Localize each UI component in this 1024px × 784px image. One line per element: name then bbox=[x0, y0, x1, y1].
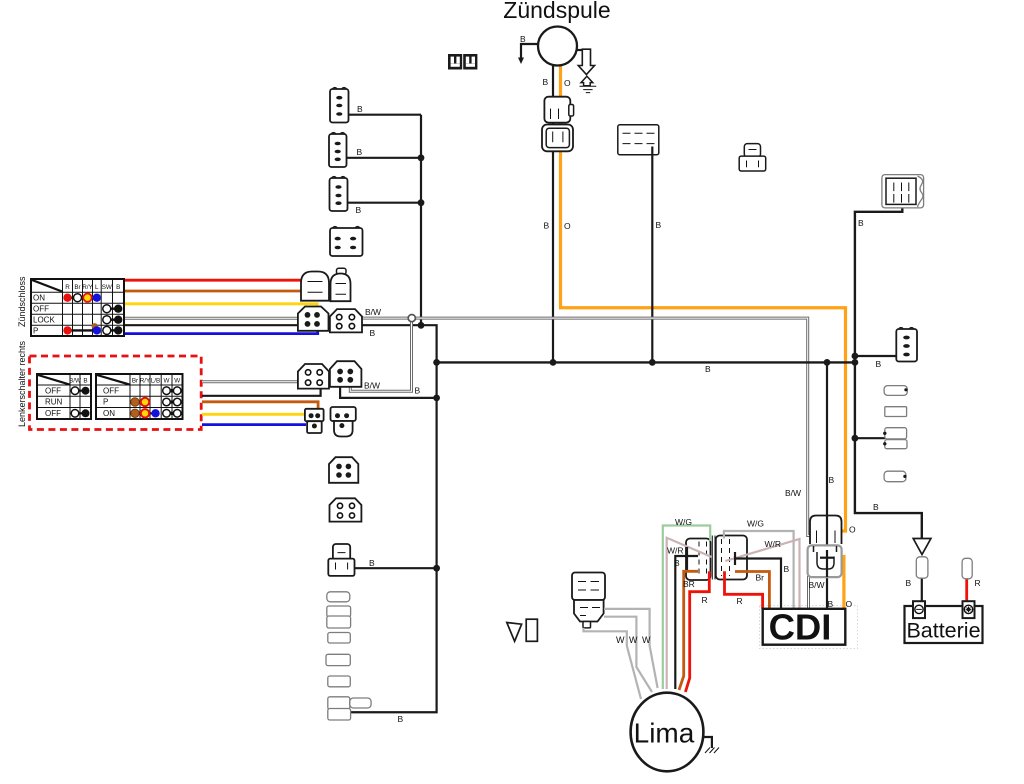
wire B from Lenkerschalter bbox=[202, 389, 321, 396]
svg-text:CDI: CDI bbox=[769, 607, 832, 648]
3-pin connector pair lower-left: left half bbox=[305, 409, 324, 433]
dashed 6-slot connector bbox=[618, 125, 659, 155]
small connector right of dashed one bbox=[739, 144, 766, 171]
fuse R (battery plus lead) bbox=[965, 579, 968, 602]
wire W/R pink from Lima, diagonal into connector bbox=[667, 538, 712, 689]
Lenkerschalter left table bbox=[37, 374, 91, 419]
bullet connector 6 bbox=[328, 676, 351, 687]
ignition coil circle bbox=[538, 27, 577, 66]
junction right bus / fuse block wire bbox=[852, 435, 859, 442]
svg-text:B: B bbox=[674, 558, 680, 568]
wire B from right half to CDI bbox=[735, 559, 781, 609]
svg-text:W: W bbox=[629, 635, 638, 645]
horizontal B bus bbox=[437, 361, 855, 363]
wire R from left half down to Lima bbox=[685, 571, 709, 692]
key connector pair (2-pin) left half bbox=[301, 272, 329, 301]
bullet connector 1 bbox=[327, 592, 350, 602]
svg-text:B: B bbox=[876, 359, 882, 369]
coil connector 1 bbox=[544, 97, 570, 123]
wire L/B(blue) from Lenkerschalter bbox=[202, 423, 306, 426]
wire B/W pair B right up to splice bbox=[350, 318, 411, 391]
svg-text:Lenkerschalter rechts: Lenkerschalter rechts bbox=[17, 340, 27, 427]
junction spine / pair B B wire bbox=[433, 395, 440, 402]
wire W 3 bbox=[584, 628, 642, 699]
svg-text:B: B bbox=[357, 147, 363, 157]
svg-text:Batterie: Batterie bbox=[906, 619, 980, 643]
CDI box bbox=[763, 609, 846, 645]
svg-text:B: B bbox=[784, 564, 790, 574]
connector T3 (3-pin) bbox=[330, 177, 348, 211]
wire Br from Lenkerschalter bbox=[202, 402, 318, 409]
svg-text:W/G: W/G bbox=[675, 517, 692, 527]
Lima connector pair left half bbox=[686, 539, 711, 581]
pair B left half (4-pin hollow) bbox=[298, 364, 329, 389]
svg-text:W: W bbox=[164, 378, 170, 385]
svg-text:Zündspule: Zündspule bbox=[503, 0, 610, 23]
junction spine / B bus bbox=[433, 359, 440, 366]
wire R from right half to CDI bbox=[725, 571, 763, 609]
wire O coil down then right to CDI connector bbox=[561, 65, 846, 532]
svg-text:B: B bbox=[398, 714, 404, 724]
wire B x=827 down to CDI connector bbox=[826, 362, 828, 516]
svg-text:B: B bbox=[906, 578, 912, 588]
connector T2 (3-pin) bbox=[329, 133, 347, 167]
svg-text:OFF: OFF bbox=[45, 409, 61, 418]
2-part connector lower-left bbox=[328, 544, 354, 576]
battery box bbox=[905, 606, 983, 643]
connector T1 (3-pin) bbox=[330, 88, 349, 123]
svg-text:Br: Br bbox=[756, 573, 765, 583]
svg-text:Br: Br bbox=[74, 284, 80, 291]
bullet connector 8 bbox=[328, 709, 351, 721]
battery minus terminal bbox=[913, 601, 925, 618]
bullet connector 4 bbox=[328, 633, 351, 644]
wire B from Zündschloss bbox=[124, 324, 299, 326]
svg-text:Br: Br bbox=[132, 378, 138, 385]
svg-text:P: P bbox=[33, 327, 38, 336]
svg-text:O: O bbox=[564, 221, 571, 231]
wire B coil down bbox=[552, 64, 554, 362]
wire B to fuse block bbox=[855, 437, 885, 439]
wire B pair A right to spine, down to bottom connector bbox=[351, 325, 437, 712]
svg-text:B: B bbox=[369, 558, 375, 568]
splice (hollow junction) B/W bbox=[408, 315, 415, 322]
wire R from Zündschloss bbox=[124, 279, 303, 282]
wire W/R from right half diagonal to CDI bbox=[725, 539, 799, 608]
Lima connector mating faces bbox=[712, 536, 715, 580]
fuse holder 4 bbox=[884, 471, 906, 482]
pair B right half (4-pin solid) bbox=[330, 361, 362, 387]
triangle symbol bbox=[507, 623, 522, 642]
svg-text:B: B bbox=[83, 378, 87, 385]
wire Br from Zündschloss bbox=[124, 290, 303, 293]
fuse holder 1 bbox=[884, 386, 907, 396]
junction B bus / coil B wire bbox=[550, 359, 557, 366]
svg-text:B: B bbox=[544, 221, 550, 231]
svg-text:O: O bbox=[846, 599, 853, 609]
CDI connector lower half bbox=[808, 545, 842, 577]
wire B through upper connector to CDI bbox=[826, 516, 828, 608]
down arrow (diode symbol) bbox=[913, 539, 931, 555]
Lima circle bbox=[631, 693, 704, 772]
junction left bus / pair A B wire bbox=[418, 322, 425, 329]
junction spine / lower connector B wire bbox=[433, 565, 440, 572]
key connector pair right half bbox=[331, 268, 351, 301]
battery plus terminal bbox=[963, 601, 975, 618]
svg-text:R: R bbox=[975, 578, 981, 588]
wire B/W from Lenkerschalter bbox=[202, 380, 299, 383]
red dashed box Lenkerschalter rechts bbox=[30, 356, 202, 430]
svg-text:B/W: B/W bbox=[785, 488, 801, 498]
junction left bus / connector T2 bbox=[418, 154, 425, 161]
svg-text:ON: ON bbox=[103, 409, 115, 418]
bullet connector 3 bbox=[327, 616, 351, 628]
bus vertical from T1 down bbox=[420, 115, 422, 326]
wire W 2 bbox=[604, 617, 652, 692]
svg-text:W: W bbox=[616, 635, 625, 645]
svg-text:B/W: B/W bbox=[809, 580, 825, 590]
svg-text:B: B bbox=[370, 328, 376, 338]
svg-text:B: B bbox=[873, 502, 879, 512]
svg-text:OFF: OFF bbox=[45, 387, 61, 396]
svg-text:B: B bbox=[829, 475, 835, 485]
wire R/Y from Zündschloss bbox=[124, 304, 317, 308]
wire Br from right half to CDI bbox=[735, 572, 769, 609]
svg-text:W: W bbox=[642, 635, 651, 645]
wire SW(B/W) from Zündschloss bbox=[124, 317, 299, 320]
wire B connector T3 to bus bbox=[348, 202, 422, 204]
wire B coil left to ground bbox=[521, 44, 539, 58]
wire B to 3-pin connector right bbox=[855, 355, 897, 357]
svg-text:OFF: OFF bbox=[103, 387, 119, 396]
wire L from Zündschloss bbox=[124, 331, 318, 334]
svg-text:LOCK: LOCK bbox=[33, 316, 55, 325]
small rect symbol bbox=[526, 619, 537, 641]
svg-text:W/R: W/R bbox=[667, 546, 684, 556]
ground symbol (spark) bbox=[581, 76, 593, 86]
bullet connector 7a bbox=[328, 697, 350, 710]
svg-text:R: R bbox=[65, 284, 70, 291]
spark plug arrow (hollow) bbox=[578, 49, 594, 74]
small black glyph icon 2 bbox=[463, 54, 477, 70]
wire W/G green from Lima to connector pair bbox=[663, 526, 710, 690]
svg-text:O: O bbox=[849, 525, 856, 535]
fuse block (double) bbox=[885, 428, 907, 439]
wire B lower-left connector to spine bbox=[355, 567, 437, 569]
wire R/Y(yellow) from Lenkerschalter bbox=[202, 413, 306, 416]
svg-text:P: P bbox=[103, 398, 108, 407]
fuse holder 2 bbox=[885, 407, 907, 417]
svg-text:O: O bbox=[564, 78, 571, 88]
junction left bus / connector T3 bbox=[418, 199, 425, 206]
junction B bus / right bus bbox=[852, 359, 859, 366]
junction right bus / 3-pin connector wire bbox=[852, 353, 859, 360]
CDI connector upper half bbox=[810, 516, 842, 545]
svg-text:R: R bbox=[737, 596, 743, 606]
svg-text:Zündschloss: Zündschloss bbox=[17, 276, 27, 327]
junction B bus / CDI B wire bbox=[824, 359, 831, 366]
svg-text:R/Y: R/Y bbox=[82, 284, 93, 291]
Lenkerschalter right table bbox=[96, 374, 183, 419]
4-slot connector top right bbox=[882, 175, 924, 208]
wire B pair B right to spine bbox=[340, 386, 437, 398]
pair A right half (4-pin hollow) bbox=[330, 309, 362, 332]
junction B bus / dashed connector B wire bbox=[649, 359, 656, 366]
svg-text:ON: ON bbox=[33, 294, 45, 303]
bullet connector 7b bbox=[350, 698, 371, 708]
wire B from dashed connector down bbox=[651, 147, 653, 363]
bullet connector 5 bbox=[326, 654, 350, 665]
svg-text:B/W: B/W bbox=[69, 378, 81, 385]
Lima connector pair right half bbox=[716, 536, 747, 580]
wire B into left half and down to Lima bbox=[675, 556, 698, 689]
coil connector 2 bbox=[542, 125, 573, 152]
bullet connector 2 bbox=[327, 606, 351, 617]
wire B connector T1 to bus bbox=[349, 114, 422, 116]
wire O out of lower connector to CDI bbox=[833, 557, 844, 609]
fuse B (battery minus lead) bbox=[921, 578, 923, 602]
4-pin connector (hollow) left column bbox=[330, 498, 362, 521]
wire BR into left half and down to Lima bbox=[679, 571, 698, 690]
svg-text:B: B bbox=[656, 220, 662, 230]
connector T4 (4-pin) bbox=[330, 227, 363, 256]
Lima ground bbox=[703, 737, 712, 748]
svg-text:B: B bbox=[357, 104, 363, 114]
W connector (Lima stator plug) bbox=[572, 573, 605, 628]
svg-text:B: B bbox=[116, 284, 120, 291]
wire W/G gray from right half to CDI bbox=[724, 531, 794, 608]
3-pin connector pair lower-left: right half bbox=[331, 407, 356, 437]
svg-text:W: W bbox=[174, 378, 180, 385]
wire B/W pair A right to CDI connector bbox=[361, 318, 814, 535]
svg-text:B: B bbox=[415, 386, 421, 396]
3-pin connector right side bbox=[896, 328, 917, 362]
wire B/W out of lower connector to CDI bbox=[807, 576, 810, 608]
svg-text:BR: BR bbox=[683, 579, 695, 589]
svg-text:SW: SW bbox=[102, 284, 112, 291]
svg-text:OFF: OFF bbox=[33, 305, 49, 314]
wire B right connector top down the right side bbox=[855, 207, 922, 539]
svg-text:R/Y: R/Y bbox=[140, 378, 151, 385]
svg-text:B: B bbox=[520, 34, 526, 44]
wire W 1 bbox=[604, 609, 658, 688]
svg-text:B/W: B/W bbox=[364, 381, 380, 391]
svg-text:B: B bbox=[858, 218, 864, 228]
svg-text:W/R: W/R bbox=[765, 539, 782, 549]
svg-text:W/G: W/G bbox=[747, 519, 764, 529]
faint outline around CDI bbox=[760, 606, 858, 649]
wire B connector T2 to bus bbox=[347, 157, 422, 159]
svg-text:L: L bbox=[95, 284, 99, 291]
svg-text:B/W: B/W bbox=[365, 307, 381, 317]
svg-text:L/B: L/B bbox=[151, 378, 160, 385]
Zündschloss table bbox=[31, 279, 124, 336]
svg-text:B: B bbox=[543, 77, 549, 87]
svg-text:Lima: Lima bbox=[634, 718, 695, 749]
svg-text:B: B bbox=[705, 364, 711, 374]
svg-text:B: B bbox=[356, 205, 362, 215]
svg-text:RUN: RUN bbox=[45, 398, 63, 407]
small black glyph icon 1 bbox=[448, 54, 462, 70]
4-pin connector (solid) left column bbox=[329, 457, 358, 483]
wire coil right to spark plug bbox=[577, 49, 585, 51]
pair A left half (4-pin solid) bbox=[298, 307, 329, 331]
svg-text:R: R bbox=[702, 595, 708, 605]
